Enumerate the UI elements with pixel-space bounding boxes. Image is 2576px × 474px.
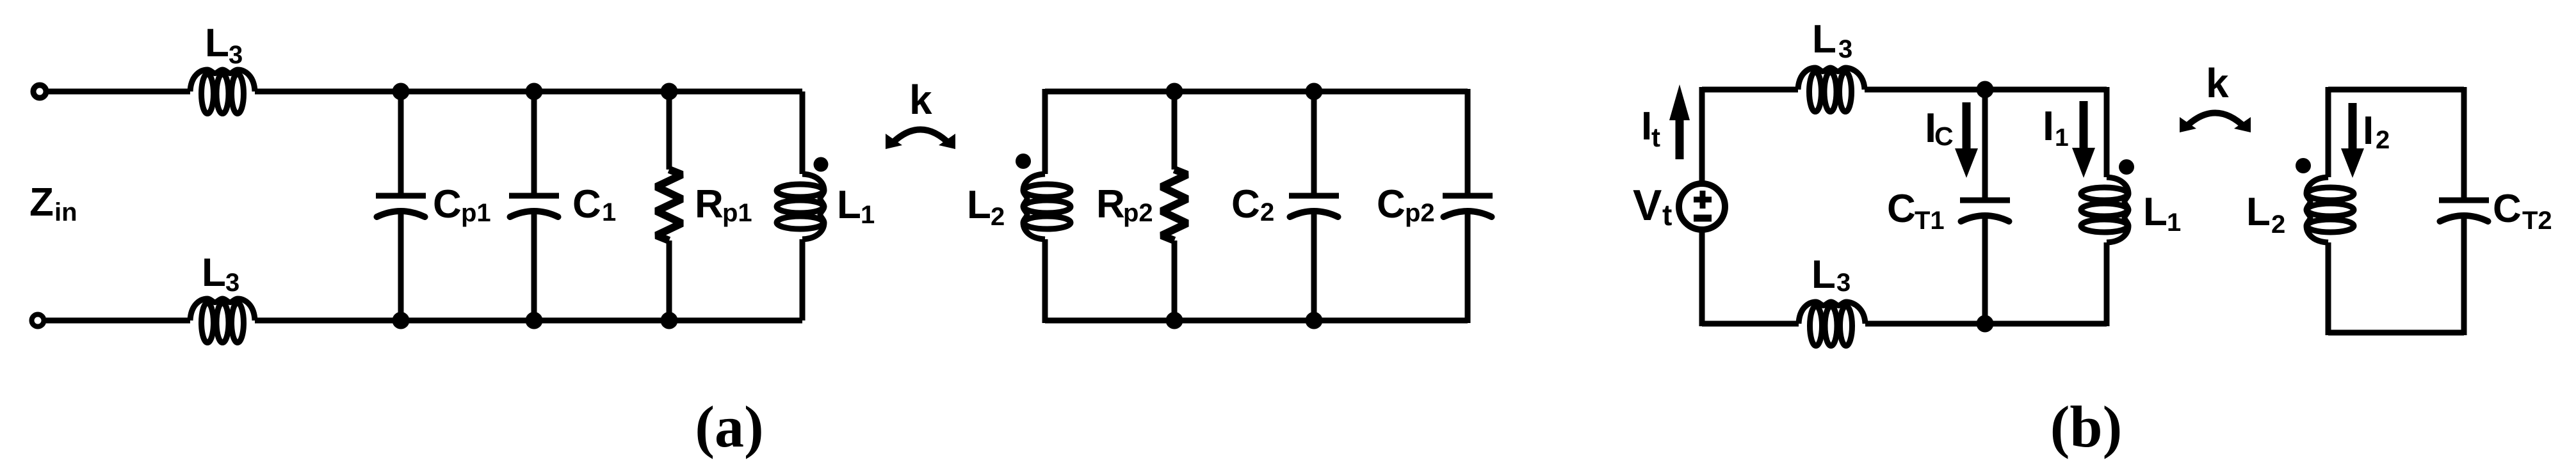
svg-text:p1: p1: [461, 199, 491, 227]
svg-text:R: R: [695, 182, 724, 226]
svg-text:2: 2: [2376, 126, 2390, 154]
svg-text:k: k: [909, 77, 932, 123]
svg-text:p2: p2: [1123, 199, 1153, 227]
wire bottom rail tank2: [1045, 318, 1468, 324]
svg-text:C: C: [1231, 182, 1260, 226]
junction dot CT1 top: [1977, 81, 1994, 99]
capacitor Cp1: [398, 91, 404, 196]
minus sign: [1694, 215, 1712, 222]
current I1 arrow: [2080, 101, 2088, 150]
svg-text:p1: p1: [722, 199, 752, 227]
coupling arc (a): [891, 130, 950, 145]
svg-text:C: C: [1887, 187, 1916, 231]
svg-text:C: C: [1377, 182, 1405, 226]
junction dot C2 bottom: [1306, 312, 1323, 329]
wire bottom rail (b) right: [1865, 321, 2107, 327]
wire top rail (b) left: [1702, 87, 1798, 93]
inductor L3 bottom (b): [1799, 302, 1865, 324]
svg-text:C: C: [1934, 122, 1954, 151]
svg-text:k: k: [2206, 60, 2229, 106]
inductor L1 (b) right edge: [2104, 87, 2110, 177]
coupling arc (b): [2185, 113, 2246, 129]
junction dot Cp1 top: [393, 83, 410, 100]
svg-text:2: 2: [2271, 210, 2285, 239]
junction dot Rp2 bottom: [1166, 312, 1183, 329]
svg-text:3: 3: [229, 41, 243, 69]
inductor L3 bottom (a): [190, 299, 255, 320]
junction dot Cp1 bottom: [393, 312, 410, 329]
svg-text:R: R: [1096, 182, 1125, 226]
terminal top-left: [33, 85, 46, 98]
polarity dot L1 (b): [2119, 159, 2134, 175]
svg-text:I: I: [2043, 102, 2054, 149]
wire top rail right: [255, 89, 802, 95]
svg-text:C: C: [433, 182, 462, 226]
svg-text:1: 1: [861, 201, 875, 229]
inductor L3 top (a): [190, 70, 255, 91]
inductor L2 (a) left edge: [1042, 89, 1048, 174]
svg-text:in: in: [54, 198, 77, 226]
svg-text:3: 3: [1836, 269, 1851, 297]
polarity dot L2 (b): [2296, 158, 2311, 173]
svg-text:L: L: [202, 251, 226, 295]
svg-text:2: 2: [991, 203, 1005, 231]
svg-text:1: 1: [602, 198, 616, 226]
plus sign: [1694, 197, 1712, 203]
svg-text:L: L: [2143, 190, 2167, 234]
svg-text:T1: T1: [1915, 207, 1945, 235]
svg-text:L: L: [967, 183, 991, 227]
current I2 arrow: [2349, 103, 2357, 151]
svg-text:3: 3: [225, 269, 239, 297]
wire top rail (b) right: [1865, 87, 2107, 93]
resistor Rp2: [1172, 91, 1178, 170]
svg-text:t: t: [1651, 122, 1660, 152]
svg-text:(b): (b): [2050, 394, 2122, 459]
wire bottom rail loop2 (b): [2328, 330, 2464, 336]
svg-text:3: 3: [1838, 35, 1852, 63]
capacitor Cp2 right edge: [1465, 89, 1471, 196]
inductor L2 (b) left edge: [2326, 87, 2331, 177]
svg-text:L: L: [205, 21, 229, 65]
svg-text:1: 1: [2167, 209, 2181, 237]
wire bottom rail (b) left: [1702, 321, 1799, 327]
wire top rail left: [49, 89, 190, 95]
current It arrow: [1676, 118, 1684, 159]
svg-text:I: I: [2363, 109, 2374, 153]
wire bottom rail left: [46, 318, 190, 324]
svg-text:L: L: [2246, 190, 2271, 234]
svg-text:1: 1: [2055, 124, 2069, 152]
svg-text:L: L: [1811, 253, 1836, 297]
svg-text:2: 2: [1260, 198, 1274, 226]
svg-text:C: C: [2493, 187, 2522, 231]
svg-text:V: V: [1633, 181, 1662, 230]
junction dot Rp1 top: [661, 83, 678, 100]
svg-text:L: L: [837, 183, 861, 227]
svg-text:t: t: [1662, 198, 1672, 232]
wire top rail tank2: [1045, 89, 1468, 95]
polarity dot L2 (a): [1016, 154, 1031, 169]
polarity dot L1 (a): [814, 157, 829, 172]
capacitor C1: [531, 91, 537, 196]
wire bottom rail right: [255, 318, 802, 324]
current IC arrow: [1963, 102, 1971, 151]
terminal bottom-left: [32, 315, 44, 327]
junction dot Rp1 bottom: [661, 312, 678, 329]
junction dot C1 top: [526, 83, 543, 100]
svg-text:C: C: [572, 182, 601, 226]
svg-text:L: L: [1812, 17, 1836, 61]
junction dot CT1 bottom: [1977, 315, 1994, 333]
svg-text:T2: T2: [2522, 207, 2552, 235]
svg-text:I: I: [1641, 104, 1652, 148]
inductor L3 top (b): [1798, 68, 1865, 90]
inductor L1 (a) right edge: [800, 91, 806, 174]
capacitor C2: [1311, 91, 1317, 196]
capacitor CT2 right edge: [2461, 87, 2467, 200]
svg-text:Z: Z: [29, 180, 54, 225]
svg-text:p2: p2: [1405, 199, 1435, 227]
resistor Rp1: [667, 91, 672, 170]
junction dot C1 bottom: [526, 312, 543, 329]
wire top rail loop2 (b): [2328, 87, 2464, 93]
junction dot Rp2 top: [1166, 83, 1183, 100]
svg-text:(a): (a): [695, 394, 763, 459]
junction dot C2 top: [1306, 83, 1323, 100]
capacitor CT1: [1982, 90, 1988, 200]
voltage source Vt: [1699, 87, 1705, 182]
